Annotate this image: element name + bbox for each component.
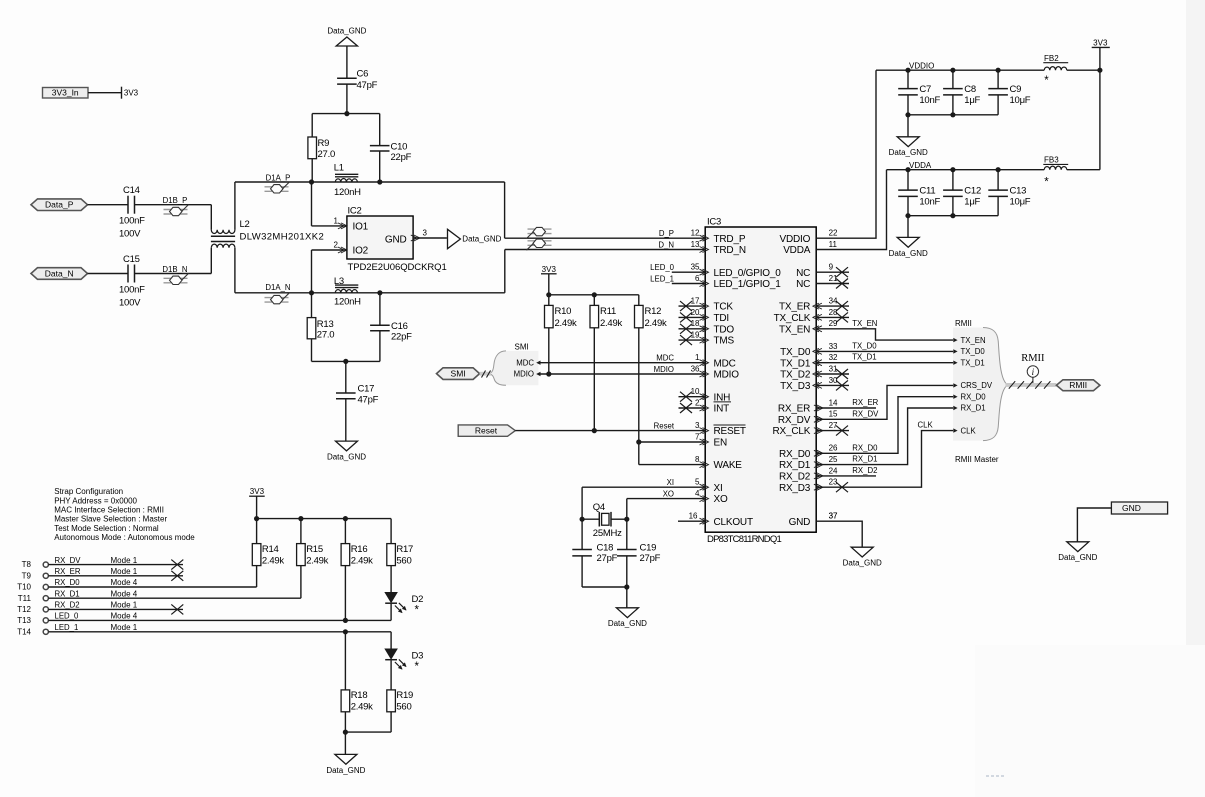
svg-text:TX_D3: TX_D3: [780, 381, 811, 392]
svg-text:Reset: Reset: [654, 421, 675, 430]
svg-text:Data_GND: Data_GND: [1058, 553, 1097, 562]
svg-text:Data_GND: Data_GND: [889, 148, 928, 157]
svg-text:27.0: 27.0: [318, 149, 336, 160]
svg-text:T14: T14: [17, 627, 31, 636]
svg-text:R18: R18: [351, 690, 368, 701]
svg-text:TX_EN: TX_EN: [961, 336, 986, 345]
svg-text:C11: C11: [919, 186, 935, 197]
svg-text:Data_GND: Data_GND: [889, 249, 928, 258]
svg-text:MDIO: MDIO: [514, 370, 534, 379]
svg-text:L1: L1: [334, 163, 344, 174]
svg-text:RMII: RMII: [1021, 353, 1045, 364]
svg-text:TDO: TDO: [714, 324, 735, 335]
svg-text:3V3: 3V3: [250, 487, 265, 496]
svg-text:1: 1: [695, 353, 700, 362]
svg-text:GND: GND: [789, 517, 811, 528]
svg-text:Data_GND: Data_GND: [462, 235, 501, 244]
svg-text:R19: R19: [396, 690, 413, 701]
svg-text:D_P: D_P: [659, 229, 674, 238]
svg-text:GND: GND: [385, 234, 407, 245]
svg-text:100nF: 100nF: [119, 284, 145, 295]
svg-text:VDDA: VDDA: [909, 161, 932, 170]
svg-text:Test Mode Selection : Normal: Test Mode Selection : Normal: [54, 524, 159, 533]
svg-text:21: 21: [829, 274, 838, 283]
svg-text:3: 3: [423, 229, 428, 238]
svg-text:Mode 4: Mode 4: [111, 612, 138, 621]
svg-text:25MHz: 25MHz: [593, 528, 622, 539]
svg-text:Mode 4: Mode 4: [111, 589, 138, 598]
svg-text:RX_D1: RX_D1: [55, 589, 80, 598]
svg-text:Data_P: Data_P: [45, 200, 74, 210]
svg-text:120nH: 120nH: [334, 187, 361, 198]
svg-text:7: 7: [695, 432, 700, 441]
svg-text:R16: R16: [351, 544, 368, 555]
svg-text:C9: C9: [1010, 84, 1022, 95]
svg-text:30: 30: [829, 376, 838, 385]
svg-text:FB2: FB2: [1044, 54, 1059, 63]
svg-text:T11: T11: [18, 594, 32, 603]
svg-text:27: 27: [829, 421, 838, 430]
svg-text:Mode 1: Mode 1: [111, 601, 138, 610]
svg-text:LED_0/GPIO_0: LED_0/GPIO_0: [714, 268, 782, 279]
svg-text:RX_D0: RX_D0: [55, 578, 81, 587]
svg-text:Reset: Reset: [475, 426, 498, 436]
svg-text:33: 33: [829, 342, 838, 351]
svg-text:22pF: 22pF: [391, 152, 412, 163]
svg-text:2: 2: [695, 398, 700, 407]
svg-text:1μF: 1μF: [964, 95, 980, 106]
svg-text:C15: C15: [123, 254, 140, 265]
svg-text:RX_D1: RX_D1: [779, 460, 811, 471]
svg-text:T8: T8: [22, 560, 32, 569]
svg-text:VDDIO: VDDIO: [909, 62, 934, 71]
svg-text:CRS_DV: CRS_DV: [961, 381, 993, 390]
svg-text:C10: C10: [391, 141, 408, 152]
svg-text:RX_D1: RX_D1: [961, 404, 986, 413]
svg-text:C17: C17: [358, 383, 375, 394]
svg-text:35: 35: [691, 263, 700, 272]
svg-text:XO: XO: [663, 489, 674, 498]
svg-text:Autonomous Mode : Autonomous m: Autonomous Mode : Autonomous mode: [54, 533, 195, 542]
svg-text:R15: R15: [306, 544, 323, 555]
svg-text:IO1: IO1: [353, 221, 369, 232]
svg-text:10nF: 10nF: [919, 95, 940, 106]
svg-text:RX_ER: RX_ER: [55, 567, 81, 576]
svg-text:DP83TC811RNDQ1: DP83TC811RNDQ1: [707, 534, 782, 545]
svg-text:LED_1: LED_1: [55, 623, 79, 632]
svg-text:D1A_P: D1A_P: [266, 173, 291, 182]
svg-text:Data_GND: Data_GND: [327, 453, 366, 462]
svg-text:C8: C8: [964, 84, 976, 95]
svg-text:MAC Interface Selection : RMII: MAC Interface Selection : RMII: [54, 506, 164, 515]
svg-text:20: 20: [691, 308, 700, 317]
svg-text:TX_D0: TX_D0: [852, 341, 877, 350]
svg-text:2.49k: 2.49k: [351, 702, 373, 713]
svg-text:D1B_P: D1B_P: [163, 196, 188, 205]
svg-text:Mode 1: Mode 1: [111, 567, 138, 576]
svg-text:XO: XO: [714, 494, 728, 505]
svg-text:TX_CLK: TX_CLK: [774, 313, 811, 324]
svg-text:NC: NC: [796, 279, 810, 290]
svg-text:R17: R17: [396, 544, 413, 555]
svg-text:EN: EN: [714, 438, 728, 449]
svg-text:C6: C6: [357, 69, 369, 80]
svg-text:3V3: 3V3: [542, 265, 557, 274]
svg-text:C7: C7: [919, 84, 931, 95]
svg-text:LED_1/GPIO_1: LED_1/GPIO_1: [714, 279, 782, 290]
svg-text:2.49k: 2.49k: [262, 555, 284, 566]
svg-text:TX_EN: TX_EN: [852, 319, 877, 328]
svg-text:9: 9: [829, 263, 834, 272]
svg-text:L2: L2: [240, 219, 250, 230]
svg-text:IC2: IC2: [348, 205, 362, 216]
svg-text:R9: R9: [318, 138, 330, 149]
svg-text:1μF: 1μF: [964, 197, 980, 208]
svg-text:13: 13: [691, 240, 700, 249]
svg-text:C18: C18: [597, 542, 614, 553]
svg-text:C16: C16: [391, 321, 408, 332]
svg-text:25: 25: [829, 455, 838, 464]
svg-text:D1B_N: D1B_N: [162, 265, 187, 274]
svg-text:Data_GND: Data_GND: [326, 766, 365, 775]
svg-text:RX_D2: RX_D2: [55, 601, 80, 610]
svg-text:28: 28: [829, 308, 838, 317]
svg-text:SMI: SMI: [451, 369, 466, 379]
svg-text:2.49k: 2.49k: [351, 555, 373, 566]
svg-text:34: 34: [829, 297, 838, 306]
svg-text:T13: T13: [17, 616, 31, 625]
svg-text:CLK: CLK: [918, 420, 934, 429]
svg-text:R13: R13: [317, 319, 334, 330]
svg-text:27pF: 27pF: [597, 553, 618, 564]
svg-text:560: 560: [396, 702, 411, 713]
svg-text:MDIO: MDIO: [654, 365, 674, 374]
svg-text:10: 10: [691, 387, 700, 396]
svg-text:10nF: 10nF: [919, 197, 940, 208]
svg-text:Data_N: Data_N: [45, 269, 74, 279]
svg-text:MDC: MDC: [516, 358, 534, 367]
svg-text:RX_D2: RX_D2: [779, 472, 811, 483]
svg-text:CLKOUT: CLKOUT: [714, 517, 753, 528]
svg-text:DLW32MH201XK2: DLW32MH201XK2: [240, 232, 324, 243]
svg-text:31: 31: [829, 364, 838, 373]
svg-text:XI: XI: [714, 483, 723, 494]
svg-text:5: 5: [695, 478, 700, 487]
svg-text:RX_ER: RX_ER: [778, 404, 810, 415]
svg-text:1: 1: [334, 216, 339, 225]
svg-text:11: 11: [829, 240, 838, 249]
svg-text:TCK: TCK: [714, 302, 734, 313]
svg-text:PHY Address = 0x0000: PHY Address = 0x0000: [54, 496, 137, 505]
svg-text:TRD_N: TRD_N: [714, 245, 746, 256]
svg-text:D2: D2: [412, 594, 424, 605]
svg-text:RX_DV: RX_DV: [852, 409, 879, 418]
svg-text:RX_D1: RX_D1: [852, 455, 877, 464]
svg-text:2.49k: 2.49k: [555, 318, 577, 329]
svg-text:C14: C14: [123, 185, 140, 196]
svg-text:Mode 4: Mode 4: [111, 578, 138, 587]
svg-text:17: 17: [691, 297, 700, 306]
svg-text:RX_ER: RX_ER: [852, 398, 878, 407]
svg-text:18: 18: [691, 319, 700, 328]
svg-text:C12: C12: [964, 186, 981, 197]
svg-text:100V: 100V: [119, 297, 141, 308]
svg-text:INT: INT: [714, 404, 730, 415]
svg-text:10μF: 10μF: [1010, 197, 1031, 208]
svg-text:*: *: [1044, 177, 1049, 189]
svg-text:D3: D3: [412, 650, 424, 661]
svg-text:32: 32: [829, 353, 838, 362]
svg-text:MDIO: MDIO: [714, 370, 740, 381]
svg-text:RX_D2: RX_D2: [852, 466, 877, 475]
svg-text:R10: R10: [555, 306, 572, 317]
svg-text:MDC: MDC: [714, 358, 736, 369]
svg-text:RX_D0: RX_D0: [779, 449, 811, 460]
svg-text:8: 8: [695, 455, 700, 464]
svg-text:3V3: 3V3: [124, 89, 139, 98]
svg-text:Data_GND: Data_GND: [327, 27, 366, 36]
svg-text:CLK: CLK: [961, 426, 977, 435]
svg-text:Master Slave Selection : Maste: Master Slave Selection : Master: [54, 515, 167, 524]
svg-text:WAKE: WAKE: [714, 460, 743, 471]
svg-text:FB3: FB3: [1044, 156, 1059, 165]
svg-text:TX_EN: TX_EN: [779, 324, 810, 335]
svg-text:12: 12: [691, 229, 700, 238]
svg-text:D_N: D_N: [658, 240, 674, 249]
svg-text:27.0: 27.0: [317, 329, 335, 340]
svg-text:Data_GND: Data_GND: [843, 559, 882, 568]
svg-text:LED_1: LED_1: [650, 274, 674, 283]
svg-text:RMII Master: RMII Master: [955, 455, 999, 464]
svg-text:*: *: [415, 661, 420, 673]
svg-text:SMI: SMI: [515, 343, 529, 352]
svg-text:TX_D0: TX_D0: [780, 347, 811, 358]
svg-text:2: 2: [334, 241, 339, 250]
svg-text:RMII: RMII: [1069, 380, 1087, 390]
svg-text:560: 560: [396, 555, 411, 566]
svg-text:*: *: [1044, 75, 1049, 87]
svg-text:NC: NC: [796, 268, 810, 279]
svg-text:36: 36: [691, 364, 700, 373]
svg-text:LED_0: LED_0: [650, 263, 675, 272]
svg-text:14: 14: [829, 398, 838, 407]
svg-text:22pF: 22pF: [391, 332, 412, 343]
svg-text:2.49k: 2.49k: [645, 318, 667, 329]
svg-text:IC3: IC3: [707, 217, 721, 228]
svg-text:C19: C19: [640, 542, 657, 553]
svg-text:RX_DV: RX_DV: [55, 556, 82, 565]
svg-text:TX_D0: TX_D0: [961, 347, 986, 356]
svg-text:TX_D2: TX_D2: [780, 370, 811, 381]
svg-text:15: 15: [829, 410, 838, 419]
svg-text:Strap Configuration: Strap Configuration: [54, 487, 123, 496]
svg-text:R11: R11: [600, 306, 616, 317]
svg-text:Q4: Q4: [593, 502, 605, 513]
svg-text:RX_D0: RX_D0: [852, 443, 878, 452]
svg-text:Mode 1: Mode 1: [111, 623, 138, 632]
svg-text:47pF: 47pF: [357, 80, 378, 91]
svg-text:16: 16: [689, 512, 698, 521]
svg-text:TMS: TMS: [714, 336, 735, 347]
svg-text:3V3_In: 3V3_In: [52, 88, 79, 98]
svg-text:R12: R12: [645, 306, 662, 317]
svg-text:VDDIO: VDDIO: [780, 234, 811, 245]
svg-text:2.49k: 2.49k: [306, 555, 328, 566]
svg-text:TDI: TDI: [714, 313, 730, 324]
svg-text:4: 4: [695, 489, 700, 498]
svg-text:MDC: MDC: [656, 354, 674, 363]
svg-text:6: 6: [695, 274, 700, 283]
svg-text:XI: XI: [667, 478, 674, 487]
svg-text:RX_D3: RX_D3: [779, 483, 811, 494]
svg-text:T12: T12: [17, 605, 31, 614]
svg-text:RMII: RMII: [955, 319, 972, 328]
svg-text:RX_DV: RX_DV: [778, 415, 811, 426]
svg-text:TX_ER: TX_ER: [779, 302, 810, 313]
svg-text:IO2: IO2: [353, 246, 369, 257]
svg-text:29: 29: [829, 319, 838, 328]
svg-text:RX_CLK: RX_CLK: [772, 426, 810, 437]
svg-text:VDDA: VDDA: [783, 245, 811, 256]
svg-text:*: *: [415, 604, 420, 616]
svg-text:Mode 1: Mode 1: [111, 556, 138, 565]
svg-text:GND: GND: [1122, 503, 1141, 513]
svg-text:TX_D1: TX_D1: [852, 353, 876, 362]
svg-text:2.49k: 2.49k: [600, 318, 622, 329]
svg-text:C13: C13: [1010, 186, 1027, 197]
svg-text:TRD_P: TRD_P: [714, 234, 746, 245]
svg-text:19: 19: [691, 331, 700, 340]
svg-text:3V3: 3V3: [1093, 38, 1108, 47]
svg-text:RESET: RESET: [714, 426, 746, 437]
svg-text:T9: T9: [22, 571, 32, 580]
svg-text:3: 3: [695, 421, 700, 430]
svg-text:100V: 100V: [119, 229, 141, 240]
svg-text:120nH: 120nH: [334, 297, 361, 308]
svg-text:26: 26: [829, 444, 838, 453]
svg-text:Data_GND: Data_GND: [608, 619, 647, 628]
svg-text:RX_D0: RX_D0: [961, 392, 987, 401]
svg-text:100nF: 100nF: [119, 216, 145, 227]
svg-text:37: 37: [829, 512, 838, 521]
svg-text:TPD2E2U06QDCKRQ1: TPD2E2U06QDCKRQ1: [348, 262, 447, 273]
svg-text:22: 22: [829, 229, 838, 238]
svg-text:D1A_N: D1A_N: [265, 283, 290, 292]
svg-text:R14: R14: [262, 544, 279, 555]
svg-text:TX_D1: TX_D1: [961, 358, 985, 367]
svg-text:24: 24: [829, 466, 838, 475]
svg-text:TX_D1: TX_D1: [780, 358, 811, 369]
svg-text:47pF: 47pF: [358, 394, 379, 405]
svg-text:10μF: 10μF: [1010, 95, 1031, 106]
svg-text:T10: T10: [17, 583, 31, 592]
svg-text:27pF: 27pF: [640, 553, 661, 564]
svg-text:LED_0: LED_0: [55, 612, 80, 621]
